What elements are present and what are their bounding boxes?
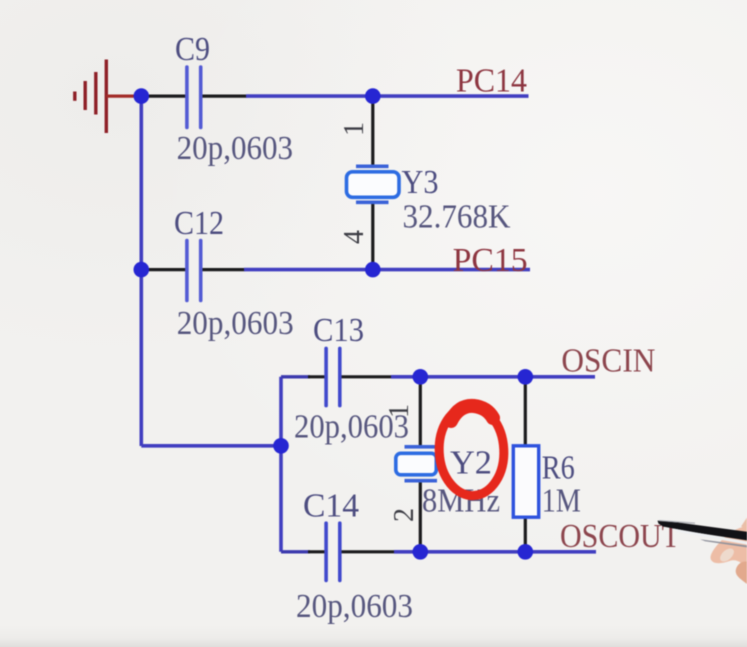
svg-text:1: 1: [339, 122, 370, 136]
wire: [140, 94, 187, 97]
pin 4 of Y3: [339, 230, 370, 244]
svg-text:C12: C12: [174, 205, 224, 242]
value label 20p,0603 for C9: [177, 130, 294, 167]
wire: [340, 375, 393, 378]
svg-text:20p,0603: 20p,0603: [177, 305, 294, 342]
node C12 left: [134, 262, 150, 278]
designator Y3: [402, 164, 439, 201]
wire: [201, 268, 245, 271]
designator Y2: [450, 445, 492, 482]
node left tee: [273, 438, 289, 454]
svg-text:1M: 1M: [542, 483, 581, 520]
wire: [246, 94, 529, 98]
designator C9: [175, 31, 210, 68]
designator R6: [542, 450, 575, 487]
wire: [391, 375, 595, 379]
svg-text:C14: C14: [303, 488, 359, 525]
wire: [279, 377, 283, 552]
value label 20p,0603 for C12: [177, 305, 294, 342]
wire: [281, 375, 310, 378]
svg-text:Y2: Y2: [450, 445, 492, 482]
svg-text:OSCIN: OSCIN: [561, 342, 655, 379]
capacitor C14: [326, 523, 340, 580]
capacitor C9: [187, 67, 201, 128]
value label 20p,0603 for C13: [294, 409, 409, 446]
annotation red circle around Y2: [437, 404, 506, 497]
node PC15 branch: [365, 262, 381, 278]
node OSCIN R6: [518, 369, 534, 385]
node OSCOUT R6: [518, 544, 534, 560]
net label PC14: [456, 63, 527, 100]
net label OSCOUT: [560, 518, 680, 555]
svg-text:PC14: PC14: [456, 63, 527, 100]
svg-text:C13: C13: [313, 312, 364, 349]
svg-text:R6: R6: [542, 450, 575, 487]
wire: [308, 550, 326, 553]
hand finger: [711, 518, 747, 585]
wire: [340, 550, 396, 553]
capacitor C12: [187, 241, 201, 301]
designator C13: [313, 312, 364, 349]
value label 32.768K for Y3: [403, 199, 511, 236]
crystal Y2: [396, 447, 437, 481]
node at ground: [134, 88, 150, 104]
wire: [201, 94, 247, 97]
svg-text:20p,0603: 20p,0603: [177, 130, 294, 167]
pen pointer: [658, 520, 747, 547]
svg-text:C9: C9: [175, 31, 210, 68]
wire: [308, 375, 326, 378]
designator C12: [174, 205, 224, 242]
node OSCOUT Y2: [413, 544, 429, 560]
ground: [75, 60, 139, 134]
capacitor C13: [326, 348, 340, 405]
wire: [281, 550, 310, 553]
resistor R6: [513, 446, 538, 517]
wire: [371, 203, 374, 270]
net label OSCIN: [561, 342, 655, 379]
wire: [141, 444, 281, 448]
wire: [371, 96, 374, 166]
pin 2 of Y2: [389, 508, 420, 522]
value label 8MHz for Y2: [422, 483, 500, 520]
svg-text:2: 2: [389, 508, 420, 522]
node PC14 branch: [365, 88, 381, 104]
wire: [419, 377, 422, 447]
svg-text:Y3: Y3: [402, 164, 439, 201]
wire: [140, 96, 144, 446]
wire: [524, 377, 527, 446]
svg-text:1: 1: [384, 404, 415, 418]
crystal Y3: [347, 166, 400, 202]
wire: [419, 481, 422, 552]
svg-text:20p,0603: 20p,0603: [296, 588, 413, 625]
node OSCIN Y2: [413, 369, 429, 385]
svg-text:4: 4: [339, 230, 370, 244]
wire: [141, 268, 186, 271]
value label 20p,0603 for C14: [296, 588, 413, 625]
pin 1 of Y3: [339, 122, 370, 136]
net label PC15: [453, 242, 528, 279]
wire: [524, 517, 527, 552]
wire: [244, 268, 530, 272]
wire: [394, 550, 596, 554]
svg-text:PC15: PC15: [453, 242, 528, 279]
designator C14: [303, 488, 359, 525]
pin 1 of Y2: [384, 404, 415, 418]
value label 1M for R6: [542, 483, 581, 520]
svg-text:32.768K: 32.768K: [403, 199, 511, 236]
